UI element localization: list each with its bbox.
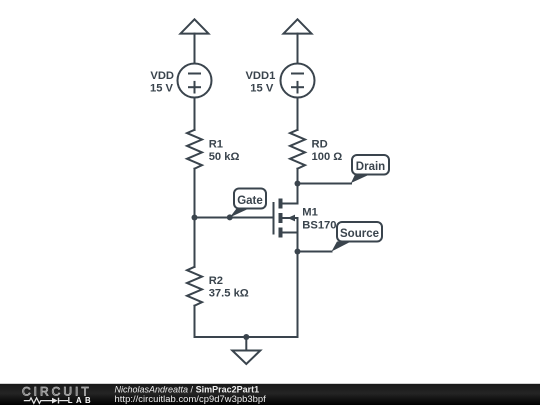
ground triangle (232, 351, 260, 365)
power flag VDD arrow (181, 19, 209, 33)
svg-text:http://circuitlab.com/cp9d7w3p: http://circuitlab.com/cp9d7w3pb3bpf (115, 393, 267, 404)
svg-text:50 kΩ: 50 kΩ (209, 151, 240, 163)
wire drain branch (298, 183, 352, 185)
voltage source VDD circle (178, 64, 212, 98)
power flag VDD1 arrow (284, 19, 312, 33)
junction node drain (295, 181, 301, 187)
svg-text:RD: RD (312, 139, 328, 151)
voltage source VDD1 minus sign (292, 73, 303, 75)
svg-text:37.5 kΩ: 37.5 kΩ (209, 288, 249, 300)
svg-text:BS170: BS170 (302, 220, 336, 232)
resistor RD (290, 130, 305, 169)
junction node R1-R2-gate (192, 215, 198, 221)
svg-text:Drain: Drain (356, 161, 385, 173)
ground stub (245, 337, 247, 351)
wire (194, 169, 196, 267)
transistor M1 body lead (283, 217, 298, 219)
svg-text:Gate: Gate (237, 195, 263, 207)
voltage source VDD1 plus sign (292, 82, 303, 93)
svg-text:R1: R1 (209, 139, 223, 151)
voltage source VDD1 circle (281, 64, 315, 98)
logo resistor glyph (24, 398, 52, 404)
transistor M1 source lead (283, 232, 298, 234)
wire gate (195, 217, 274, 219)
resistor R1 (187, 130, 202, 169)
junction node ground (243, 334, 249, 340)
transistor M1 channel segments (279, 199, 283, 238)
wire (297, 98, 299, 130)
transistor M1 gate bar (273, 203, 275, 234)
wire (297, 218, 299, 337)
wire source branch (298, 251, 332, 253)
wire (194, 34, 196, 64)
flag Drain pointer (351, 175, 370, 184)
svg-text:Source: Source (340, 228, 379, 240)
wire (297, 34, 299, 64)
flag Gate pointer (230, 209, 249, 218)
voltage source VDD minus sign (189, 73, 200, 75)
svg-text:LAB: LAB (68, 396, 94, 405)
svg-text:R2: R2 (209, 275, 223, 287)
wire (297, 169, 299, 204)
svg-text:15 V: 15 V (250, 83, 274, 95)
wire (194, 98, 196, 130)
transistor M1 drain lead (283, 203, 298, 205)
resistor R2 (187, 267, 202, 306)
junction node source (295, 249, 301, 255)
svg-text:M1: M1 (302, 207, 318, 219)
flag Source box (337, 222, 382, 242)
flag Source pointer (332, 242, 352, 252)
wire (194, 306, 196, 337)
logo diode glyph (52, 398, 58, 404)
voltage source VDD plus sign (189, 82, 200, 93)
transistor M1 body arrow (288, 215, 296, 222)
svg-text:15 V: 15 V (150, 83, 174, 95)
wire bottom (195, 336, 298, 338)
flag Drain box (352, 155, 389, 175)
svg-text:100 Ω: 100 Ω (312, 151, 343, 163)
svg-text:VDD1: VDD1 (245, 70, 275, 82)
flag Gate box (234, 189, 266, 209)
svg-text:VDD: VDD (150, 70, 174, 82)
